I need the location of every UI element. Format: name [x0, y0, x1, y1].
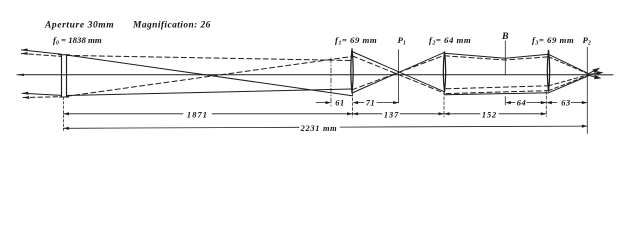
f0 extension — [62, 97, 64, 131]
svg-text:f1= 69 mm: f1= 69 mm — [335, 35, 377, 47]
svg-text:152: 152 — [482, 110, 497, 119]
P2 vertical — [586, 47, 588, 134]
svg-text:Magnification: 26: Magnification: 26 — [132, 21, 211, 31]
incoming solid ray top with arrow — [21, 50, 61, 54]
ray solid bottom shallow f0-f1 — [67, 89, 353, 96]
dim 137 — [353, 112, 359, 115]
lens f0 (objective) — [59, 55, 70, 97]
ray solid f3 top to P2 — [549, 54, 590, 74]
ray solid f3 bottom to P2 — [549, 76, 590, 93]
ray dashed flat top f0-f1 — [67, 55, 353, 60]
lens f3 — [547, 50, 549, 92]
optical axis — [17, 74, 613, 76]
dimension labels — [187, 99, 571, 133]
ray dashed upper-bottom f2-f3 — [446, 86, 549, 89]
focal plane dash-dot line — [330, 58, 332, 106]
f2 extension — [443, 92, 445, 117]
ray solid f1 bottom to f2 top — [352, 52, 445, 93]
svg-text:Aperture 30mm: Aperture 30mm — [44, 21, 114, 31]
svg-text:1871: 1871 — [187, 110, 208, 119]
thin reference verticals — [63, 41, 587, 134]
svg-text:B: B — [501, 31, 509, 42]
svg-text:2231 mm: 2231 mm — [300, 124, 338, 133]
ray dashed top f2-f3 dipping at B — [445, 56, 549, 60]
ray dashed f3 to P2 a — [549, 57, 590, 74]
ray solid f1 top to f2 bottom — [352, 52, 445, 92]
svg-text:f3= 69 mm: f3= 69 mm — [532, 35, 574, 47]
dim 61 outside arrows — [316, 102, 327, 104]
svg-text:P1: P1 — [398, 35, 406, 47]
svg-text:64: 64 — [517, 99, 527, 108]
B dim tick — [504, 97, 506, 105]
svg-text:137: 137 — [384, 110, 399, 119]
ray solid bottom f2-f3 — [445, 93, 549, 95]
svg-text:f2= 64 mm: f2= 64 mm — [429, 35, 471, 47]
ray solid top f2-f3 — [445, 53, 549, 58]
lens f1 — [351, 49, 353, 94]
ray dashed f1 to f2 bottom — [353, 56, 445, 93]
incoming dashed ray bottom with arrow — [23, 96, 62, 99]
B vertical — [504, 41, 506, 75]
ray dashed f1 to f2 top — [352, 55, 445, 90]
ray dashed f3 to P2 c — [549, 75, 590, 90]
exit arrows right of P2 — [589, 68, 614, 80]
f1 extension — [352, 93, 354, 117]
incoming dashed ray top with arrow — [21, 54, 61, 57]
ray dashed f3 to P2 b — [549, 75, 590, 86]
ray dashed f0 bottom to f1 top — [67, 57, 353, 97]
ray dashed lower-bottom f2-f3 — [446, 91, 549, 94]
dimensions — [63, 101, 587, 130]
incoming solid ray bottom with arrow — [22, 93, 62, 95]
svg-text:f0 = 1838 mm: f0 = 1838 mm — [53, 35, 102, 47]
svg-text:61: 61 — [335, 99, 345, 108]
P1 vertical — [398, 50, 400, 103]
dim 152 — [444, 112, 450, 115]
title text — [44, 21, 591, 47]
dim 2231 mm — [63, 127, 69, 130]
lens f2 — [443, 52, 445, 93]
dim 71 — [357, 102, 364, 104]
svg-text:P2: P2 — [583, 35, 591, 47]
dim 63 — [546, 101, 552, 104]
svg-text:63: 63 — [561, 99, 571, 108]
dim 1871 — [63, 112, 69, 115]
dim 64 — [505, 101, 511, 104]
svg-text:71: 71 — [366, 99, 376, 108]
ray solid marginal top f0 to f1 bottom — [67, 55, 353, 96]
f3 extension — [545, 92, 547, 117]
